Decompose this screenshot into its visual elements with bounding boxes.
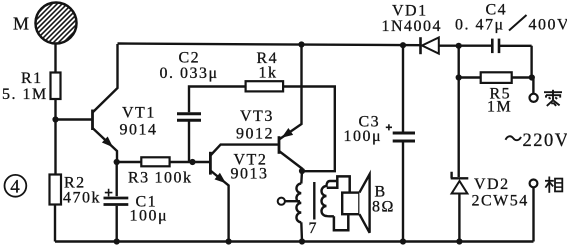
label ling neutral glyph bbox=[544, 90, 562, 106]
capacitor C3 bbox=[386, 45, 415, 241]
svg-text:2CW54: 2CW54 bbox=[472, 193, 529, 210]
terminal phase bbox=[530, 180, 538, 188]
label R2 bbox=[64, 175, 86, 192]
label 0.033u bbox=[160, 65, 219, 82]
node VD2 bottom rail bbox=[456, 238, 462, 244]
label 9014 bbox=[120, 122, 158, 139]
svg-text:VD2: VD2 bbox=[474, 176, 510, 193]
svg-text:9014: 9014 bbox=[120, 122, 158, 139]
speaker voice coil winding bbox=[322, 181, 338, 216]
label VT2 bbox=[234, 152, 268, 169]
node VT3 collector / R4 / primary bbox=[299, 168, 305, 174]
zener diode VD2 bbox=[451, 172, 469, 242]
svg-text:220V: 220V bbox=[523, 131, 567, 151]
label M bbox=[13, 14, 31, 34]
svg-text:1M: 1M bbox=[487, 99, 512, 116]
transformer core bbox=[313, 182, 315, 220]
microphone M bbox=[3, 0, 108, 48]
node C3 bottom rail bbox=[400, 238, 406, 244]
capacitor C2 bbox=[177, 87, 246, 163]
label 5.1M bbox=[2, 86, 48, 103]
svg-text:R1: R1 bbox=[21, 70, 43, 87]
label VD1 bbox=[392, 3, 428, 20]
transformer tap terminal bbox=[278, 198, 300, 205]
label C4 bbox=[486, 2, 508, 19]
svg-text:470k: 470k bbox=[63, 190, 101, 207]
wire R1 to R2 bbox=[54, 99, 56, 175]
top rail wire right of diode bbox=[439, 45, 493, 47]
node top rail VT3 riser bbox=[298, 41, 304, 47]
label 100k bbox=[155, 170, 193, 187]
transformer primary winding bbox=[296, 171, 302, 242]
svg-text:5. 1M: 5. 1M bbox=[2, 86, 48, 103]
terminal neutral bbox=[530, 94, 538, 102]
svg-text:9012: 9012 bbox=[236, 126, 274, 143]
svg-text:7: 7 bbox=[309, 220, 319, 237]
wire phase terminal to rail bbox=[532, 187, 534, 241]
svg-text:M: M bbox=[13, 14, 31, 34]
wire R3 left lead bbox=[117, 161, 142, 163]
label 1N4004 bbox=[382, 18, 443, 35]
capacitor C1 bbox=[104, 162, 129, 242]
svg-text:8Ω: 8Ω bbox=[372, 199, 395, 216]
label R4 bbox=[257, 50, 279, 67]
label B bbox=[375, 184, 387, 201]
label VT1 bbox=[122, 105, 156, 122]
label 0.47u/400V bbox=[455, 15, 567, 34]
resistor R1 bbox=[51, 73, 61, 100]
speaker driver B bbox=[342, 174, 369, 233]
svg-text:R3: R3 bbox=[128, 170, 150, 187]
svg-text:VT1: VT1 bbox=[122, 105, 156, 122]
label 470k bbox=[63, 190, 101, 207]
svg-text:VD1: VD1 bbox=[392, 3, 428, 20]
node C1 bottom rail bbox=[114, 238, 120, 244]
capacitor C4 bbox=[492, 39, 499, 54]
speaker magnet top tab bbox=[327, 176, 350, 192]
label R3 bbox=[128, 170, 150, 187]
top rail wire bbox=[118, 44, 421, 46]
node R5 C4 neutral junction bbox=[529, 74, 535, 80]
wire base lead VT1 bbox=[56, 118, 92, 120]
wire C4R5 right riser bbox=[532, 46, 534, 94]
svg-text:1k: 1k bbox=[259, 65, 278, 82]
label C1 bbox=[136, 194, 158, 211]
label 9013 bbox=[231, 166, 269, 183]
node VT2 emitter bottom rail bbox=[226, 238, 232, 244]
wire mic to R1 bbox=[54, 44, 56, 73]
resistor R4 bbox=[246, 81, 284, 91]
svg-text:1N4004: 1N4004 bbox=[382, 18, 443, 35]
label 1M bbox=[487, 99, 512, 116]
bottom rail wire bbox=[55, 240, 534, 242]
label C3 bbox=[359, 114, 381, 131]
label R1 bbox=[21, 70, 43, 87]
svg-text:100μ: 100μ bbox=[344, 128, 383, 145]
label ~220V bbox=[506, 131, 567, 151]
node top rail C3 bbox=[400, 42, 406, 48]
label 100u bbox=[130, 208, 169, 225]
svg-text:0. 033μ: 0. 033μ bbox=[160, 65, 219, 82]
resistor R3 bbox=[141, 157, 169, 166]
label 2CW54 bbox=[472, 193, 529, 210]
node R3/C2/VT2 base bbox=[189, 159, 195, 165]
diode VD1 bbox=[421, 37, 439, 54]
label VD2 bbox=[474, 176, 510, 193]
label 1k bbox=[259, 65, 278, 82]
node R5 branch bbox=[456, 74, 462, 80]
svg-text:4: 4 bbox=[10, 177, 21, 198]
svg-text:100μ: 100μ bbox=[130, 208, 169, 225]
svg-text:C2: C2 bbox=[179, 50, 201, 67]
label 100u C3 bbox=[344, 128, 383, 145]
svg-text:100k: 100k bbox=[155, 170, 193, 187]
node VT1 emitter / R3 / C1 bbox=[114, 159, 120, 165]
resistor R5 bbox=[481, 72, 512, 83]
label 8ohm bbox=[372, 199, 395, 216]
transistor VT3 bbox=[279, 45, 302, 172]
wire R2 to bottom rail bbox=[54, 205, 56, 242]
svg-text:400V: 400V bbox=[529, 17, 567, 34]
speaker magnet bottom tab bbox=[334, 214, 348, 230]
label 9012 bbox=[236, 126, 274, 143]
wire R5 right lead bbox=[512, 76, 534, 78]
node top rail VD1-C4 bbox=[456, 43, 462, 49]
label R5 bbox=[490, 86, 512, 103]
svg-text:9013: 9013 bbox=[231, 166, 269, 183]
wire R3 right lead to VT2 base bbox=[170, 161, 210, 163]
node mic/base junction bbox=[52, 116, 58, 122]
transistor VT2 bbox=[210, 145, 278, 242]
circled number 4 bbox=[5, 175, 27, 198]
wire R5 left lead bbox=[459, 76, 481, 78]
node primary bottom rail bbox=[299, 238, 305, 244]
top rail wire right of C4 bbox=[499, 45, 532, 47]
label 7 bbox=[309, 220, 319, 237]
svg-text:0. 47μ: 0. 47μ bbox=[455, 17, 505, 34]
label C2 bbox=[179, 50, 201, 67]
wire VD1 node down to VD2 bbox=[458, 46, 460, 177]
resistor R2 bbox=[50, 175, 62, 205]
label xiang phase glyph bbox=[545, 177, 562, 193]
wire R4 right lead and feedback riser bbox=[283, 87, 335, 172]
label VT3 bbox=[240, 108, 274, 125]
transistor VT1 bbox=[93, 44, 118, 162]
svg-text:VT3: VT3 bbox=[240, 108, 274, 125]
